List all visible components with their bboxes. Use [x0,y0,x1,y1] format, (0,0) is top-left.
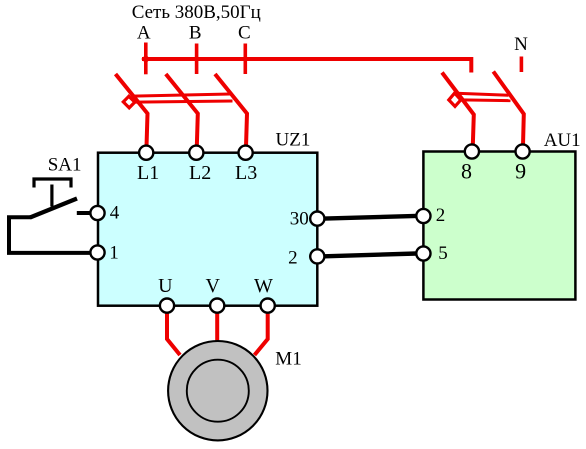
pin label L3 [235,162,257,184]
pin label 2 of AU1 [436,205,446,226]
svg-text:AU1: AU1 [544,130,581,151]
breaker QF1 linkage bar upper [132,94,230,96]
label UZ1 [276,130,311,151]
terminal 2 of UZ1 [310,249,324,263]
terminal 4 [90,206,104,220]
svg-text:N: N [514,34,528,55]
svg-text:А: А [137,23,151,44]
breaker QF1 handle diamond [123,96,135,108]
label AU1 [544,130,581,151]
svg-text:4: 4 [110,203,120,224]
svg-text:UZ1: UZ1 [276,130,311,151]
terminal tick N [520,57,524,73]
terminal W [261,299,275,313]
terminal U [160,299,174,313]
node B (phase B label) [189,23,202,44]
breaker QF2 handle diamond [449,93,461,106]
svg-text:2: 2 [288,247,298,268]
terminal L3 [239,146,253,160]
svg-text:2: 2 [436,205,446,226]
node C (phase C label) [238,23,251,44]
breaker QF1 linkage bar lower [135,101,233,102]
terminal tick phase A [144,43,148,75]
pin label 30 [290,209,309,230]
pin label U [158,275,173,297]
motor M1 inner circle [187,360,249,422]
wire: motor phase V (red) [215,313,219,346]
pin label 2 of UZ1 [288,247,298,268]
terminal 1 [90,245,104,259]
svg-text:U: U [158,275,173,297]
svg-text:8: 8 [461,159,472,184]
pin label 8 [461,159,472,184]
node N (neutral label) [514,34,528,55]
breaker QF2 pole 2 blade + wire to terminal 9 [493,72,524,146]
svg-text:W: W [254,275,273,297]
wire: UZ1 terminal 30 to AU1 terminal 2 (black) [324,216,416,219]
breaker QF1 pole 1 blade + wire to L1 [116,74,148,147]
svg-text:L2: L2 [189,162,211,184]
svg-text:SA1: SA1 [48,155,82,176]
junction dot at phase A on bus [141,55,150,64]
switch SA1 contact blade [30,199,77,218]
svg-text:1: 1 [109,243,119,264]
svg-text:V: V [205,275,220,297]
pin label L1 [137,162,159,184]
box AU1 (control unit) [423,152,575,300]
wire: motor phase U (red) [167,313,180,356]
pin label 5 of AU1 [438,243,448,264]
wire: SA1 pivot to terminal 1 [9,217,91,253]
svg-text:Сеть 380В,50Гц: Сеть 380В,50Гц [132,2,261,23]
svg-text:L1: L1 [137,162,159,184]
svg-text:С: С [238,23,251,44]
pin label V [205,275,220,297]
switch SA1 button bracket [34,179,71,188]
box UZ1 (frequency converter) [98,153,317,306]
breaker QF1 pole 2 blade + wire to L2 [166,74,198,147]
svg-text:L3: L3 [235,162,257,184]
terminal 9 [516,144,530,158]
terminal tick phase B [195,44,199,75]
terminal V [210,299,224,313]
label M1 [275,349,301,370]
label SA1 [48,155,82,176]
pin label W [254,275,273,297]
terminal L1 [139,146,153,160]
svg-text:5: 5 [438,243,448,264]
pin label 9 [515,159,526,184]
node A (phase A label) [137,23,151,44]
motor M1 outer circle [168,341,267,440]
pin label 1 [109,243,119,264]
wire: SA1 fixed contact stub to terminal 4 [77,211,91,215]
wire: UZ1 terminal 2 to AU1 terminal 5 (black) [324,254,416,257]
breaker QF2 pole 1 blade + wire to terminal 8 [442,73,474,147]
terminal 8 [465,144,479,158]
terminal 30 [310,212,324,226]
breaker QF2 linkage bar lower [461,98,511,102]
terminal 2 of AU1 [416,209,430,223]
breaker QF1 pole 3 blade + wire to L3 [215,74,247,147]
label: supply net "Сеть 380В,50Гц" [132,2,261,23]
pin label 4 [110,203,120,224]
svg-text:30: 30 [290,209,309,230]
breaker QF2 linkage bar upper [457,93,509,95]
wire: motor phase W (red) [255,313,268,356]
wire: 380V supply bus from phase A to right breaker [142,59,471,73]
terminal tick phase C [244,44,248,75]
switch SA1 actuator stem [50,185,53,207]
terminal 5 of AU1 [416,246,430,260]
svg-text:M1: M1 [275,349,301,370]
svg-text:9: 9 [515,159,526,184]
pin label L2 [189,162,211,184]
terminal L2 [189,146,203,160]
svg-text:В: В [189,23,202,44]
